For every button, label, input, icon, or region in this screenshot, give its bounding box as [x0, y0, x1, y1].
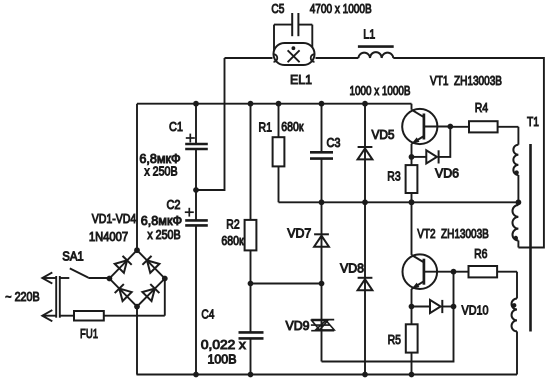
svg-text:C5: C5 — [271, 2, 284, 16]
svg-text:1N4007: 1N4007 — [89, 230, 128, 244]
svg-text:680к: 680к — [221, 234, 244, 248]
svg-text:T1: T1 — [527, 114, 539, 129]
svg-text:VD9: VD9 — [286, 319, 310, 333]
svg-text:C2: C2 — [167, 197, 181, 212]
svg-text:100В: 100В — [208, 352, 237, 366]
svg-text:C3: C3 — [327, 135, 341, 150]
svg-text:EL1: EL1 — [290, 72, 312, 87]
svg-text:C1: C1 — [169, 119, 183, 134]
svg-text:VD5: VD5 — [371, 128, 394, 142]
svg-text:R5: R5 — [388, 332, 401, 347]
svg-text:VD10: VD10 — [462, 303, 489, 317]
svg-text:680к: 680к — [281, 120, 304, 134]
svg-text:R4: R4 — [475, 100, 488, 115]
svg-text:VD6: VD6 — [435, 167, 459, 181]
svg-text:VD7: VD7 — [287, 226, 311, 240]
svg-text:FU1: FU1 — [80, 326, 98, 341]
svg-text:VT1 ZH13003B: VT1 ZH13003B — [430, 74, 502, 88]
svg-text:R2: R2 — [226, 217, 239, 232]
svg-text:C4: C4 — [201, 307, 214, 322]
svg-text:~ 220В: ~ 220В — [5, 290, 39, 304]
svg-text:х 250В: х 250В — [147, 228, 180, 242]
svg-text:VT2 ZH13003B: VT2 ZH13003B — [417, 227, 489, 241]
svg-text:х 250В: х 250В — [144, 164, 177, 178]
svg-text:VD8: VD8 — [340, 261, 364, 275]
svg-text:L1: L1 — [363, 26, 375, 41]
svg-text:6,8мкФ: 6,8мкФ — [141, 214, 182, 228]
svg-text:R1: R1 — [259, 119, 273, 134]
svg-text:1000 х 1000В: 1000 х 1000В — [350, 84, 411, 98]
svg-text:4700 х 1000В: 4700 х 1000В — [310, 2, 372, 16]
svg-text:VD1-VD4: VD1-VD4 — [92, 212, 137, 226]
svg-text:R6: R6 — [474, 246, 487, 261]
svg-text:R3: R3 — [387, 168, 400, 183]
svg-text:0,022 х: 0,022 х — [201, 338, 247, 352]
svg-text:SA1: SA1 — [62, 248, 84, 263]
